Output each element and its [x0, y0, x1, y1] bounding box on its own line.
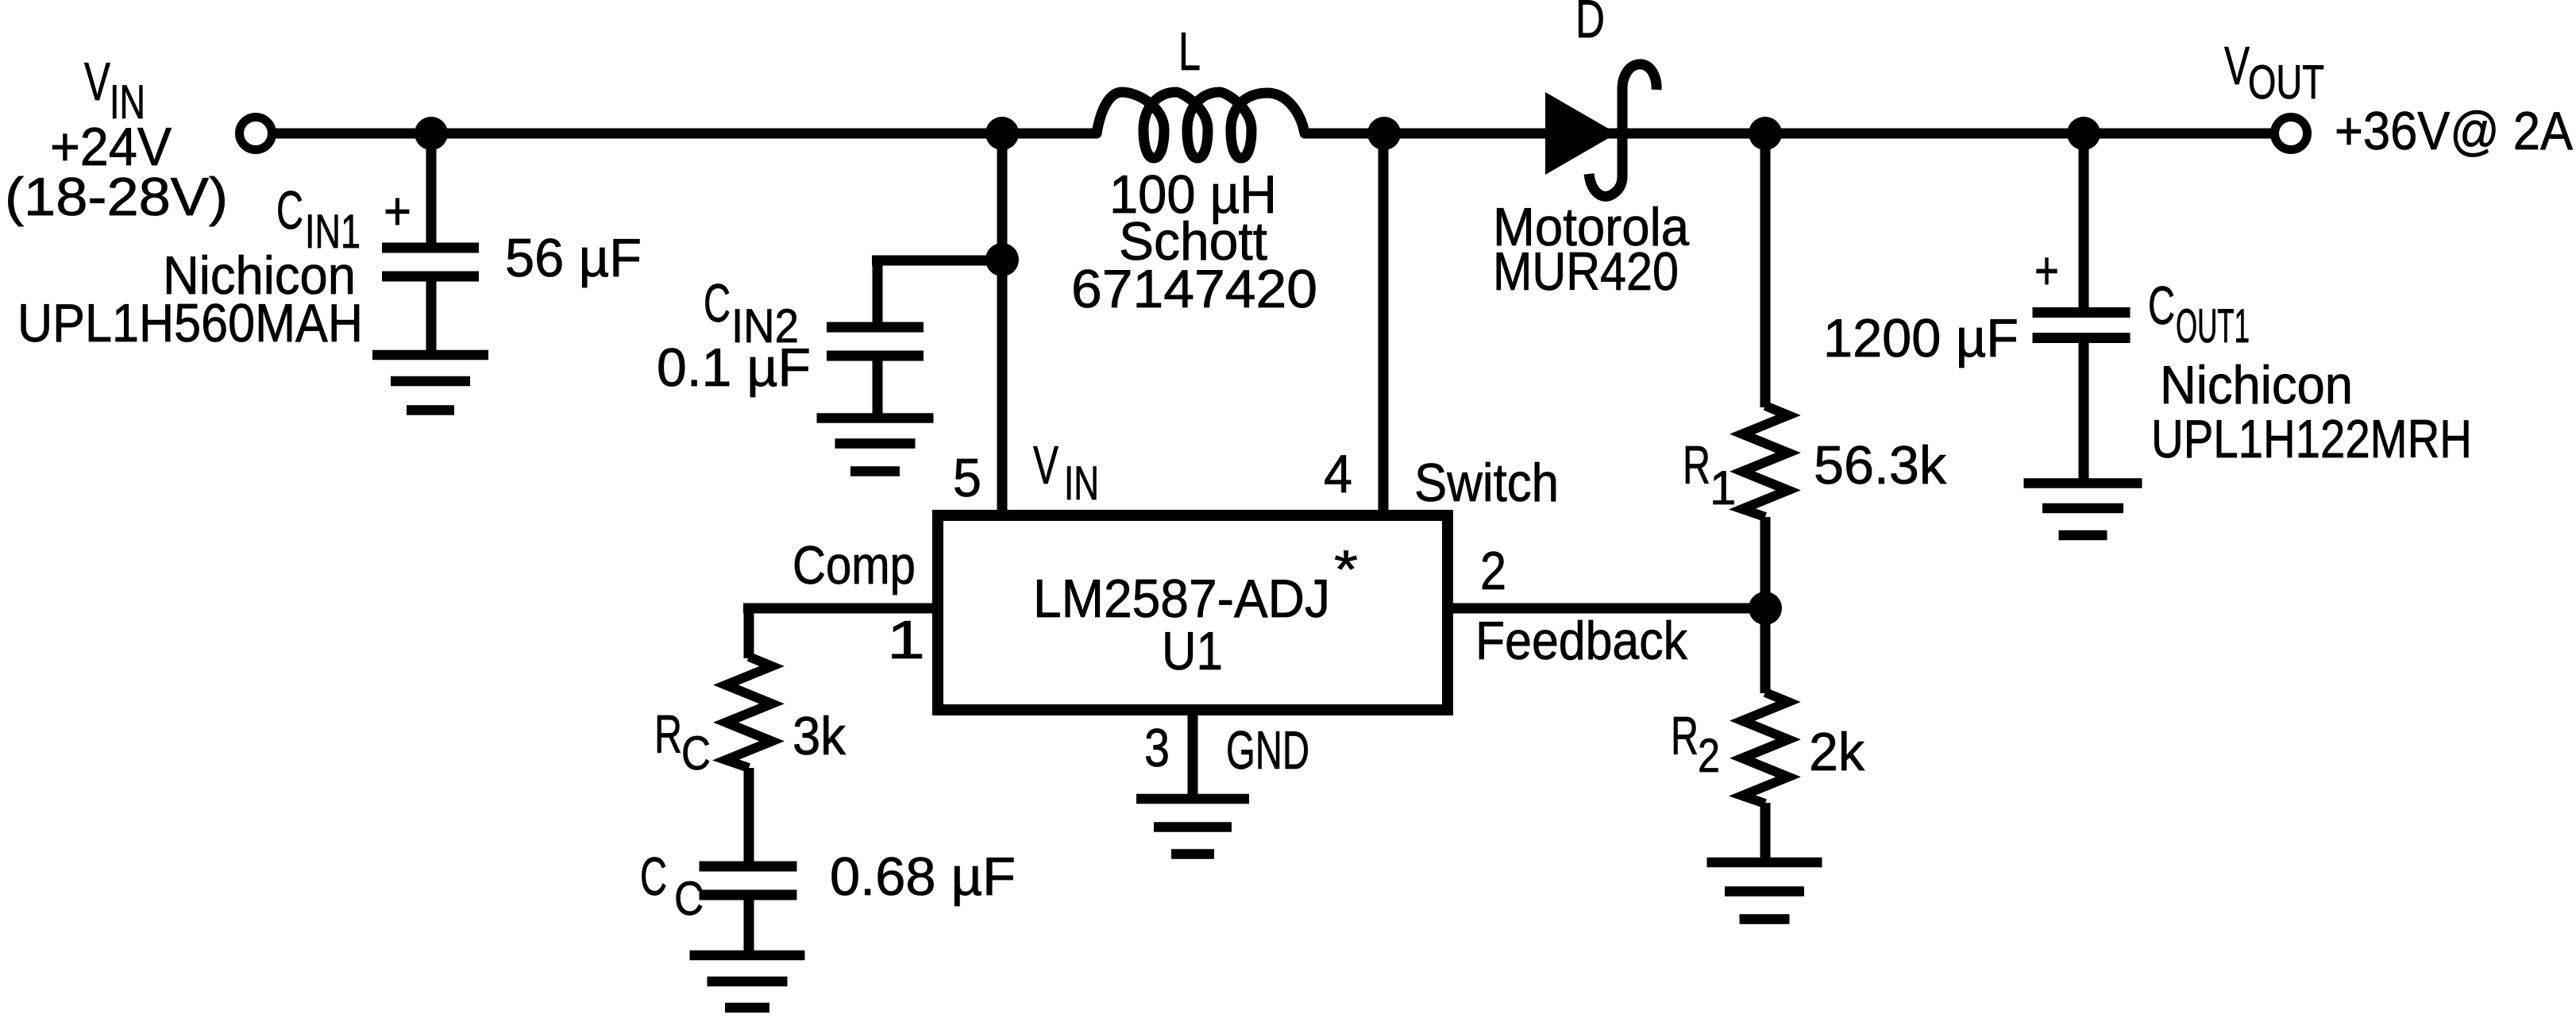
wire R2 bottom — [1760, 803, 1771, 862]
capacitor CIN1 lower lead — [426, 281, 437, 355]
svg-text:UPL1H122MRH: UPL1H122MRH — [2151, 409, 2472, 469]
pin 4 — [1324, 444, 1352, 504]
node C (inductor/switch) — [1367, 117, 1401, 150]
svg-text:1: 1 — [1710, 461, 1736, 515]
svg-text:Switch: Switch — [1414, 453, 1559, 513]
ground CIN1 — [372, 355, 488, 411]
svg-text:Comp: Comp — [792, 535, 916, 596]
ground CIN2 — [817, 418, 934, 472]
label 0.1uF — [657, 337, 811, 398]
label UPL1H122MRH — [2151, 409, 2472, 469]
label 2k — [1809, 722, 1865, 782]
pin label VIN — [1033, 435, 1099, 510]
label Nichicon right — [2160, 355, 2353, 415]
svg-text:2: 2 — [1480, 541, 1506, 601]
wire pin1 Comp horizontal — [743, 603, 938, 614]
svg-text:C: C — [276, 180, 303, 241]
node G (feedback divider) — [1749, 592, 1782, 625]
svg-text:5: 5 — [953, 448, 981, 508]
wire pin3 GND vertical — [1188, 711, 1198, 799]
label D — [1575, 0, 1605, 49]
svg-text:L: L — [1178, 21, 1201, 82]
ground CC — [690, 955, 805, 1008]
label 3k — [792, 706, 846, 766]
svg-text:4: 4 — [1324, 444, 1352, 504]
svg-text:UPL1H560MAH: UPL1H560MAH — [17, 293, 363, 353]
wire Cout1 top — [2079, 133, 2089, 310]
svg-text:56 µF: 56 µF — [505, 228, 642, 288]
ground GND pin3 — [1136, 799, 1249, 854]
svg-text:+36V@ 2A: +36V@ 2A — [2335, 101, 2574, 161]
wire Cin1 drop — [426, 133, 437, 245]
label VOUT — [2224, 36, 2324, 109]
wire Rc to Cc — [744, 768, 754, 864]
node D (diode/R1) — [1749, 117, 1782, 150]
wire top rail right (inductor to Vout) — [1303, 129, 2288, 139]
label 67147420 — [1071, 259, 1317, 319]
label VIN — [84, 52, 145, 129]
label +36V 2A — [2335, 101, 2574, 161]
resistor R2 zigzag — [1742, 692, 1788, 804]
label plus COUT1 — [2034, 241, 2059, 301]
capacitor CIN1 plates — [382, 243, 479, 253]
label 56uF — [505, 228, 642, 288]
diode D cathode curve — [1589, 64, 1656, 196]
capacitor CC plates — [700, 862, 797, 872]
pin label Switch — [1414, 453, 1559, 513]
svg-text:2k: 2k — [1809, 722, 1865, 782]
svg-text:OUT: OUT — [2248, 56, 2324, 109]
node B (pin5 tap) — [985, 117, 1019, 150]
svg-text:OUT1: OUT1 — [2176, 299, 2250, 353]
wire Cc bottom — [744, 897, 754, 955]
svg-text:1200 µF: 1200 µF — [1823, 308, 2019, 368]
terminal Vin — [240, 118, 272, 150]
pin 2 — [1480, 541, 1506, 601]
wire R2 top — [1760, 608, 1771, 693]
svg-text:R: R — [1671, 706, 1699, 766]
svg-text:1: 1 — [887, 610, 925, 670]
wire R1 bottom to feedback node — [1760, 517, 1771, 608]
pin 1 — [887, 610, 925, 670]
wire Rc vertical top — [744, 603, 754, 658]
op-amp U1 LM2587-ADJ box — [938, 515, 1448, 710]
svg-text:Feedback: Feedback — [1475, 611, 1688, 671]
label U1 — [1162, 621, 1223, 681]
svg-text:U1: U1 — [1162, 621, 1223, 681]
label L — [1178, 21, 1201, 82]
pin label Feedback — [1475, 611, 1688, 671]
resistor R1 zigzag — [1742, 406, 1788, 517]
wire Cout1 bottom — [2079, 341, 2089, 483]
svg-text:MUR420: MUR420 — [1493, 241, 1679, 302]
label Nichicon left — [163, 245, 356, 306]
label MUR420 — [1493, 241, 1679, 302]
ground R2 — [1707, 862, 1822, 920]
svg-text:C: C — [674, 872, 704, 925]
diode D anode triangle — [1545, 92, 1617, 175]
label 0.68uF — [830, 846, 1016, 907]
svg-text:*: * — [1334, 539, 1358, 600]
wire pin4 Switch vertical — [1379, 133, 1389, 515]
capacitor CIN2 plates — [827, 322, 924, 333]
svg-text:56.3k: 56.3k — [1814, 435, 1947, 496]
svg-text:C: C — [640, 846, 667, 907]
node A (Cin1 tap) — [415, 117, 448, 150]
svg-text:R: R — [654, 704, 682, 765]
svg-text:C: C — [704, 273, 731, 334]
node E (Cout1 tap) — [2067, 117, 2100, 150]
ground COUT1 — [2024, 484, 2142, 536]
svg-text:(18-28V): (18-28V) — [5, 167, 228, 227]
label +24V — [50, 117, 172, 177]
svg-text:R: R — [1683, 435, 1710, 496]
wire Cin2 horizontal — [872, 256, 1002, 266]
svg-text:C: C — [681, 727, 711, 780]
svg-text:V: V — [1033, 435, 1059, 496]
svg-text:D: D — [1575, 0, 1605, 49]
wire pin2 feedback horizontal — [1448, 603, 1765, 614]
label CIN1 — [276, 180, 411, 258]
inductor L coil — [1097, 92, 1305, 158]
label Schott — [1119, 211, 1267, 272]
pin label GND — [1226, 720, 1309, 781]
label LM2587-ADJ — [1033, 539, 1358, 629]
svg-text:C: C — [2148, 276, 2175, 336]
svg-text:V: V — [84, 52, 110, 112]
svg-text:IN: IN — [1064, 457, 1099, 510]
svg-text:2: 2 — [1698, 729, 1720, 782]
pin 5 — [953, 448, 981, 508]
svg-text:+: + — [2034, 241, 2059, 301]
terminal Vout — [2275, 118, 2308, 150]
node F (Cin2 tap) — [985, 243, 1019, 276]
label CC — [640, 846, 704, 925]
pin label Comp — [792, 535, 916, 596]
svg-text:3: 3 — [1144, 718, 1170, 778]
label CIN2 — [704, 273, 799, 353]
svg-text:Nichicon: Nichicon — [2160, 355, 2353, 415]
wire Cin2 vertical — [873, 256, 883, 325]
label 56.3k — [1814, 435, 1947, 496]
svg-text:V: V — [2224, 36, 2250, 96]
label COUT1 — [2148, 276, 2250, 353]
capacitor CIN2 lower lead — [873, 361, 883, 415]
pin 3 — [1144, 718, 1170, 778]
label UPL1H560MAH — [17, 293, 363, 353]
svg-text:GND: GND — [1226, 720, 1309, 781]
svg-text:0.1 µF: 0.1 µF — [657, 337, 811, 398]
wire R1 top — [1760, 133, 1771, 407]
svg-text:3k: 3k — [792, 706, 846, 766]
wire top rail left (Vin to inductor) — [259, 129, 1098, 139]
resistor RC zigzag — [726, 657, 772, 768]
label Motorola — [1493, 197, 1689, 257]
label RC — [654, 704, 711, 780]
label (18-28V) — [5, 167, 228, 227]
label 100uH — [1109, 164, 1277, 225]
svg-text:+: + — [384, 181, 411, 241]
svg-text:0.68 µF: 0.68 µF — [830, 846, 1016, 907]
wire pin5 Vin vertical — [997, 133, 1008, 515]
label R1 — [1683, 435, 1736, 515]
svg-text:LM2587-ADJ: LM2587-ADJ — [1033, 569, 1330, 629]
label 1200uF — [1823, 308, 2019, 368]
svg-text:67147420: 67147420 — [1071, 259, 1317, 319]
capacitor COUT1 plates — [2033, 307, 2131, 318]
label R2 — [1671, 706, 1720, 782]
